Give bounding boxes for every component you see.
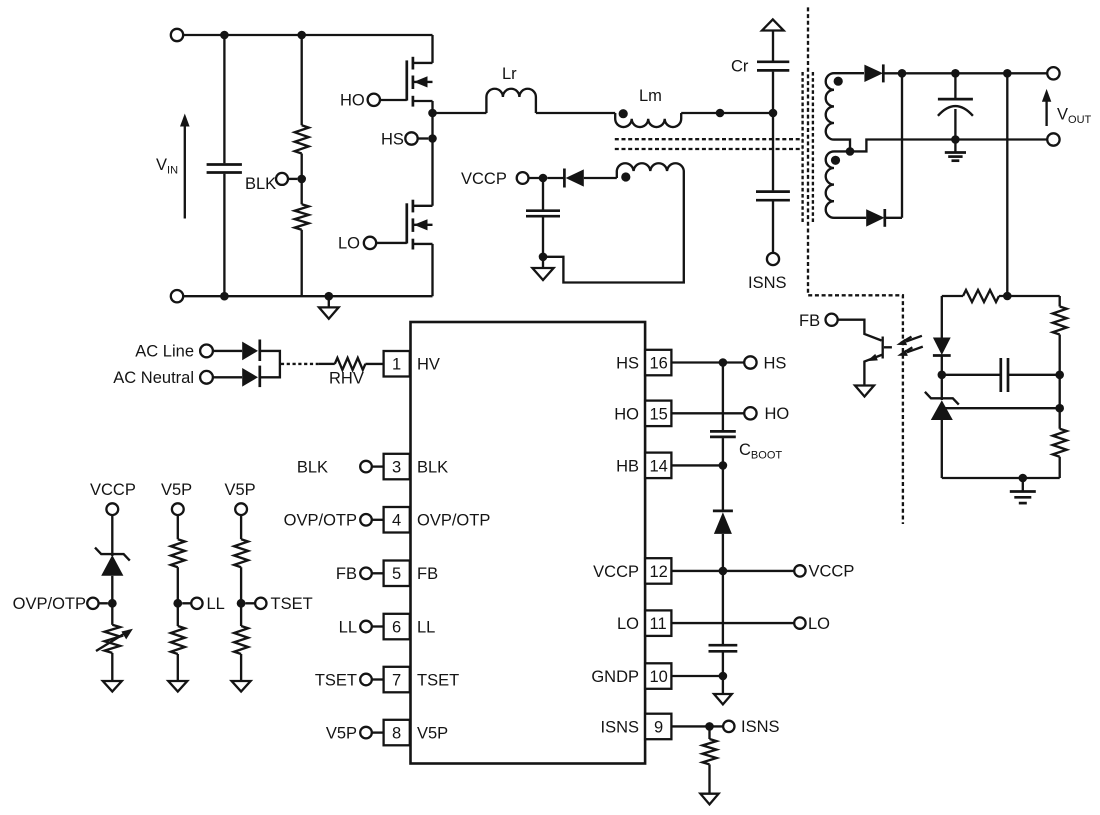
svg-text:VCCP: VCCP — [809, 563, 855, 581]
earth ground feedback — [1022, 478, 1024, 491]
zener VCCP OVP — [111, 515, 113, 556]
svg-text:ISNS: ISNS — [600, 718, 639, 736]
node divider mid — [1055, 404, 1064, 413]
wire diode OR junction — [260, 351, 280, 377]
svg-text:ISNS: ISNS — [748, 274, 787, 292]
terminal LL — [191, 598, 202, 609]
wire top rail — [183, 34, 432, 36]
terminal VOUT plus — [1047, 67, 1059, 79]
svg-text:8: 8 — [392, 725, 401, 743]
node half-bridge midpoint — [428, 109, 437, 118]
node feedback ground — [1019, 474, 1028, 483]
capacitor output electrolytic — [954, 73, 956, 98]
svg-text:BLK: BLK — [245, 175, 276, 193]
transistor Q1 high-side MOSFET — [380, 35, 433, 113]
svg-text:AC Line: AC Line — [135, 343, 194, 361]
diode secondary bottom — [866, 209, 884, 226]
diode AC Line — [242, 342, 258, 361]
svg-text:VCCP: VCCP — [461, 170, 507, 188]
op-amp U1 controller body — [411, 322, 646, 764]
terminal V5P LL — [172, 503, 184, 515]
svg-text:FB: FB — [336, 565, 357, 583]
svg-text:6: 6 — [392, 619, 401, 637]
resistor ISNS sense — [708, 726, 710, 739]
terminal VOUT return — [1047, 133, 1059, 145]
wire VOUT to feedback divider — [1006, 73, 1008, 296]
wire zener ref to divider — [942, 407, 1060, 409]
transistor opto phototransistor — [838, 320, 882, 341]
VOUT arrow — [1045, 101, 1047, 127]
svg-text:TSET: TSET — [417, 672, 459, 690]
polarity dot secondary bottom — [831, 156, 840, 165]
node LL — [173, 599, 182, 608]
svg-text:4: 4 — [392, 512, 401, 530]
svg-text:LO: LO — [617, 615, 639, 633]
pin 3 BLK box — [384, 454, 410, 480]
terminal V5P TSET — [235, 503, 247, 515]
svg-text:7: 7 — [392, 672, 401, 690]
ground primary — [328, 296, 330, 307]
svg-text:TSET: TSET — [315, 672, 357, 690]
node bottom rail / ground — [325, 292, 334, 301]
svg-text:VCCP: VCCP — [593, 563, 639, 581]
svg-text:BLK: BLK — [297, 459, 328, 477]
svg-text:HB: HB — [616, 457, 639, 475]
svg-text:16: 16 — [650, 355, 668, 373]
transformer core dashed pair — [801, 72, 803, 222]
transistor Q2 low-side MOSFET — [376, 200, 432, 297]
wire midpoint down — [431, 113, 433, 206]
inductor aux winding — [543, 163, 684, 282]
inductor Lr — [486, 89, 536, 113]
svg-text:LL: LL — [339, 619, 357, 637]
resistor LL upper — [177, 515, 179, 539]
terminal HO gate — [368, 94, 380, 106]
wire feedback top — [942, 295, 963, 297]
wire rectifier common — [901, 73, 903, 218]
terminal OVP/OTP — [87, 598, 98, 609]
svg-text:HS: HS — [381, 130, 404, 148]
svg-text:10: 10 — [650, 668, 668, 686]
resistor BLK divider upper — [301, 35, 303, 125]
pin 10 GNDP box — [645, 663, 671, 689]
node output cap bottom — [951, 135, 960, 144]
capacitor bulk input — [223, 35, 225, 163]
pin 4 OVP/OTP box — [384, 507, 410, 533]
capacitor feedback compensation — [942, 374, 1000, 376]
svg-text:OVP/OTP: OVP/OTP — [284, 512, 357, 530]
opto light arrow upper — [906, 336, 922, 342]
node resonant/Cr — [769, 109, 778, 118]
diode bootstrap — [722, 465, 724, 509]
svg-text:5: 5 — [392, 565, 401, 583]
svg-text:LO: LO — [808, 615, 830, 633]
svg-text:AC Neutral: AC Neutral — [113, 369, 194, 387]
zener shunt regulator — [941, 375, 943, 400]
pin 12 VCCP box — [645, 558, 671, 584]
svg-text:BLK: BLK — [417, 459, 448, 477]
svg-text:HS: HS — [764, 354, 787, 372]
svg-text:OVP/OTP: OVP/OTP — [13, 595, 86, 613]
resistor TSET upper — [240, 515, 242, 539]
pin 7 TSET box — [384, 667, 410, 693]
svg-text:Lr: Lr — [502, 65, 517, 83]
node feedback top — [1003, 292, 1012, 301]
wire Lr to Lm — [536, 112, 615, 114]
inductor Lm — [615, 113, 681, 127]
capacitor Cr — [772, 72, 774, 113]
ground aux — [542, 257, 544, 268]
node output cap top — [951, 69, 960, 78]
terminal VCCP pullup — [106, 503, 118, 515]
opto light arrow lower — [907, 347, 923, 353]
diode opto LED — [941, 296, 943, 338]
svg-text:V5P: V5P — [417, 725, 448, 743]
node VCCP aux — [539, 174, 548, 183]
resistor TSET lower — [234, 626, 248, 654]
wire bottom rail — [183, 295, 432, 297]
ground LL divider — [168, 681, 187, 692]
VIN arrow — [184, 125, 186, 219]
terminal TSET — [255, 598, 266, 609]
node OVP/OTP — [108, 599, 117, 608]
winding secondary bottom — [826, 151, 867, 217]
wire midpoint to Lr — [433, 112, 487, 114]
capacitor ISNS sense — [772, 113, 774, 190]
pin 11 LO box — [645, 610, 671, 636]
terminal LO gate — [364, 237, 376, 249]
svg-text:Lm: Lm — [639, 87, 662, 105]
coupling dashed lines Lm to core — [615, 138, 803, 140]
node bottom rail / bulk cap — [220, 292, 229, 301]
svg-text:HS: HS — [616, 355, 639, 373]
pin 1 HV box — [384, 351, 410, 377]
svg-text:HO: HO — [340, 92, 365, 110]
terminal VCCP aux — [517, 172, 529, 184]
ground ISNS resistor — [700, 794, 718, 805]
svg-text:3: 3 — [392, 459, 401, 477]
pin 9 ISNS box — [645, 714, 671, 740]
resistor LL lower — [171, 626, 185, 654]
diode secondary top — [864, 65, 883, 82]
node output divider top — [1003, 69, 1012, 78]
svg-text:VCCP: VCCP — [90, 481, 136, 499]
polarity dot secondary top — [834, 77, 843, 86]
ground TSET divider — [232, 681, 251, 692]
capacitor VCCP aux — [542, 178, 544, 210]
isolation boundary dashed — [808, 7, 903, 524]
input terminal top — [171, 29, 183, 41]
svg-text:12: 12 — [650, 563, 668, 581]
svg-text:V5P: V5P — [225, 481, 256, 499]
terminal ISNS sense — [767, 253, 779, 265]
svg-text:GNDP: GNDP — [591, 668, 639, 686]
ground VCCP pullup — [103, 681, 122, 692]
ground opto emitter — [855, 386, 874, 397]
input terminal bottom — [171, 290, 183, 302]
node top rail / bulk cap — [220, 31, 229, 40]
resistor feedback series — [963, 290, 999, 302]
rail arrow above Cr — [762, 19, 784, 30]
node center tap — [846, 147, 855, 156]
svg-text:LL: LL — [417, 619, 435, 637]
terminal BLK — [276, 173, 288, 185]
svg-text:FB: FB — [799, 312, 820, 330]
node HS tap — [428, 134, 437, 143]
winding secondary top — [826, 73, 864, 151]
svg-text:15: 15 — [650, 405, 668, 423]
terminal HS — [405, 132, 417, 144]
node LED cathode — [938, 371, 947, 380]
svg-text:OVP/OTP: OVP/OTP — [417, 512, 490, 530]
node top rail / BLK divider — [297, 31, 306, 40]
svg-text:Cr: Cr — [731, 58, 749, 76]
pin 14 HB box — [645, 453, 671, 479]
node BLK — [297, 175, 306, 184]
svg-text:V5P: V5P — [326, 725, 357, 743]
svg-text:LL: LL — [207, 595, 225, 613]
resistor divider lower — [1053, 429, 1067, 457]
ground GNDP — [722, 676, 724, 694]
pin 5 FB box — [384, 561, 410, 587]
node compensation right — [1055, 371, 1064, 380]
svg-text:HO: HO — [765, 405, 790, 423]
pin 16 HS box — [645, 350, 671, 376]
resistor divider upper — [1059, 296, 1061, 307]
resistor NTC variable — [111, 603, 113, 625]
svg-text:TSET: TSET — [271, 595, 313, 613]
svg-text:FB: FB — [417, 565, 438, 583]
capacitor CBOOT — [722, 363, 724, 431]
svg-text:1: 1 — [392, 356, 401, 374]
node aux return — [539, 252, 548, 261]
node TSET — [237, 599, 246, 608]
svg-text:ISNS: ISNS — [741, 718, 780, 736]
wire feedback bottom — [942, 477, 1060, 479]
pin 6 LL box — [384, 614, 410, 640]
terminal AC Neutral — [200, 371, 213, 384]
capacitor VCCP bypass — [722, 571, 724, 644]
terminal AC Line — [200, 345, 213, 358]
diode aux rectifier — [547, 177, 564, 179]
wire center tap to return — [850, 140, 1047, 152]
svg-text:LO: LO — [338, 235, 360, 253]
resistor BLK divider lower — [295, 204, 309, 229]
svg-text:HV: HV — [417, 356, 440, 374]
diode AC Neutral — [242, 368, 258, 387]
wire Lm to Cr node — [681, 112, 773, 114]
resistor RHV — [335, 358, 366, 370]
pin 15 HO box — [645, 401, 671, 427]
svg-text:HO: HO — [614, 405, 639, 423]
svg-text:11: 11 — [650, 615, 667, 633]
wire dotted to RHV — [281, 363, 319, 365]
svg-text:14: 14 — [650, 457, 668, 475]
terminal FB opto — [826, 314, 838, 326]
polarity dot Lm — [619, 109, 628, 118]
pin 8 V5P box — [384, 720, 410, 746]
wire output plus rail — [902, 72, 1047, 74]
svg-text:V5P: V5P — [161, 481, 192, 499]
svg-text:9: 9 — [654, 718, 663, 736]
node after Lm — [716, 109, 725, 118]
earth ground output — [954, 140, 956, 153]
polarity dot aux winding — [621, 172, 630, 181]
svg-text:RHV: RHV — [329, 370, 364, 388]
node rectifier top — [898, 69, 907, 78]
